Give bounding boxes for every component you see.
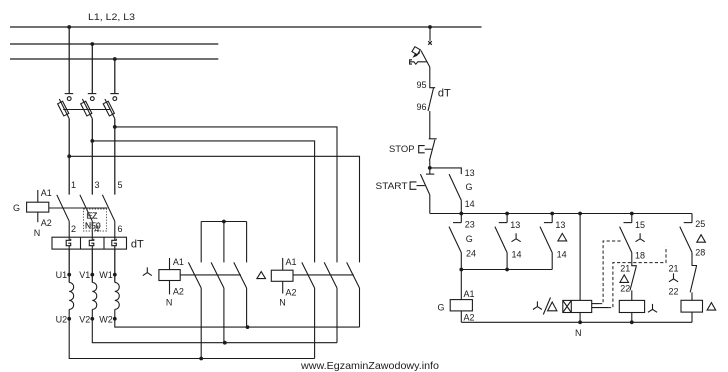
fuse-switch linkage xyxy=(63,109,110,111)
motor winding V xyxy=(92,282,97,309)
contactor G main contact 1-2 xyxy=(57,195,69,237)
svg-text:13: 13 xyxy=(465,168,475,178)
aux contact G 13-14 xyxy=(430,168,462,214)
contactor D contact 2 xyxy=(324,262,337,342)
svg-text:A2: A2 xyxy=(41,218,52,228)
node V1 xyxy=(90,273,94,277)
svg-text:A1: A1 xyxy=(173,257,184,267)
wire L3 rail xyxy=(10,58,218,60)
svg-text:14: 14 xyxy=(557,250,567,260)
wire V2 run xyxy=(92,309,337,342)
svg-text:28: 28 xyxy=(695,248,705,258)
svg-text:L1, L2, L3: L1, L2, L3 xyxy=(88,12,135,22)
contactor G main contact 3-4 xyxy=(80,195,92,237)
node below STOP xyxy=(428,166,432,170)
contactor G coil xyxy=(13,188,52,238)
svg-text:V2: V2 xyxy=(79,314,90,324)
timed contact 25-28 xyxy=(680,214,692,261)
svg-text:N: N xyxy=(166,298,173,308)
svg-text:18: 18 xyxy=(635,250,645,260)
svg-text:V1: V1 xyxy=(79,270,90,280)
wire aux bottom bus xyxy=(461,269,552,271)
node busA Y aux xyxy=(505,212,509,216)
svg-text:G: G xyxy=(13,203,20,213)
wire bridge stub 3 xyxy=(246,222,248,263)
svg-text:W1: W1 xyxy=(99,270,113,280)
svg-text:22: 22 xyxy=(668,287,678,297)
breaker Q1 xyxy=(410,41,432,82)
wire branch phase2 to delta left xyxy=(92,141,314,263)
wire phase drop 2 xyxy=(91,44,93,93)
wire N bus xyxy=(461,321,692,323)
svg-text:N: N xyxy=(279,298,286,308)
coil D control xyxy=(681,300,716,322)
svg-text:25: 25 xyxy=(695,219,705,229)
symbol delta D aux xyxy=(558,233,567,241)
node branch phase3 xyxy=(113,125,117,129)
node U1 xyxy=(67,273,71,277)
svg-text:13: 13 xyxy=(555,220,565,230)
node busA timer xyxy=(578,212,582,216)
wire L1 rail xyxy=(10,26,482,28)
svg-text:www.EgzaminZawodowy.info: www.EgzaminZawodowy.info xyxy=(300,360,439,372)
svg-text:3: 3 xyxy=(95,180,100,190)
node busA D aux xyxy=(550,212,554,216)
svg-text:A1: A1 xyxy=(464,289,475,299)
contactor D contact 1 xyxy=(302,262,315,358)
timer linkage to 15-18 xyxy=(592,303,599,305)
wire control bus A xyxy=(430,213,692,215)
svg-text:14: 14 xyxy=(465,199,475,209)
motor winding W xyxy=(115,282,120,309)
wire W2 run xyxy=(115,309,360,327)
svg-text:5: 5 xyxy=(118,180,123,190)
svg-text:A2: A2 xyxy=(173,286,184,296)
svg-text:N: N xyxy=(575,328,582,338)
node L1 tap control xyxy=(428,25,432,29)
wire phase drop 3 xyxy=(114,59,116,93)
wire phase drop 1 xyxy=(68,27,70,93)
svg-text:U2: U2 xyxy=(56,314,68,324)
fuse-switch pole 2 xyxy=(81,94,97,119)
node L2 tap xyxy=(90,42,94,46)
node Y mid on V2 run xyxy=(223,341,227,345)
wire bridge stub 2 xyxy=(223,222,225,263)
svg-text:EZ: EZ xyxy=(87,211,98,221)
coil G control xyxy=(438,270,475,323)
symbol delta 25 xyxy=(697,235,706,243)
contactor Y linkage xyxy=(180,274,241,276)
timer linkage to 25-28 xyxy=(592,307,608,309)
svg-text:G: G xyxy=(466,182,473,192)
node W1 xyxy=(113,273,117,277)
svg-text:START: START xyxy=(376,181,409,191)
motor winding U xyxy=(69,282,74,309)
svg-text:2: 2 xyxy=(71,224,76,234)
node Y right on W2 run xyxy=(246,325,250,329)
wire dT to W1 xyxy=(114,249,116,282)
coil Y control xyxy=(619,300,657,322)
contactor Y star bridge xyxy=(201,221,246,223)
svg-text:22: 22 xyxy=(620,284,630,294)
svg-text:N: N xyxy=(34,228,41,238)
fuse-switch pole 1 xyxy=(58,94,74,119)
svg-text:STOP: STOP xyxy=(389,144,415,154)
svg-text:A2: A2 xyxy=(464,312,475,322)
svg-text:A1: A1 xyxy=(41,188,52,198)
node L3 tap xyxy=(113,57,117,61)
aux contact Y 13-14 xyxy=(495,214,507,270)
svg-text:96: 96 xyxy=(416,102,426,112)
svg-text:G: G xyxy=(466,234,473,244)
node busA 15 xyxy=(630,212,634,216)
pushbutton STOP xyxy=(419,139,437,168)
label star/delta timer xyxy=(533,298,557,315)
svg-text:14: 14 xyxy=(512,250,522,260)
thermal contact dT 95-96 xyxy=(428,82,435,139)
svg-text:dT: dT xyxy=(438,87,451,99)
fuse-switch pole 3 xyxy=(103,94,119,119)
wire dT to V1 xyxy=(91,249,93,282)
wire U2 to delta right run xyxy=(69,309,314,358)
node branch phase2 xyxy=(90,139,94,143)
contactor Y contact 1 xyxy=(188,262,201,358)
svg-text:G: G xyxy=(438,303,445,313)
svg-text:23: 23 xyxy=(465,220,475,230)
symbol star interlock xyxy=(669,273,678,281)
svg-text:6: 6 xyxy=(118,224,123,234)
node branch phase1 xyxy=(67,154,71,158)
node N timer xyxy=(578,320,582,324)
wire L2 rail xyxy=(10,43,218,45)
heater element 2 xyxy=(89,237,94,249)
svg-text:U1: U1 xyxy=(56,270,68,280)
symbol star Y aux xyxy=(512,233,521,241)
contactor Y coil xyxy=(143,257,184,308)
svg-text:N50: N50 xyxy=(85,221,101,231)
node aux bus G xyxy=(459,268,463,272)
contactor Y contact 3 xyxy=(234,262,247,327)
wire below fuse 3 xyxy=(114,119,116,195)
svg-text:A2: A2 xyxy=(286,287,297,297)
svg-text:24: 24 xyxy=(466,249,476,259)
svg-text:13: 13 xyxy=(510,220,520,230)
wire dT to U1 xyxy=(68,249,70,282)
svg-text:21: 21 xyxy=(668,264,678,274)
svg-text:A1: A1 xyxy=(286,257,297,267)
wire below fuse 2 xyxy=(91,119,93,195)
svg-text:1: 1 xyxy=(71,180,76,190)
contactor D contact 3 xyxy=(347,262,360,327)
contactor G linkage xyxy=(49,207,108,209)
watermark stamp box xyxy=(84,209,107,231)
wire timer drop xyxy=(579,214,581,301)
svg-text:95: 95 xyxy=(416,80,426,90)
heater element 1 xyxy=(66,237,71,249)
timed contact 15-18 xyxy=(620,214,632,261)
aux contact D 13-14 xyxy=(540,214,552,270)
svg-text:W2: W2 xyxy=(99,314,113,324)
svg-text:15: 15 xyxy=(635,220,645,230)
wire control drop from L1 xyxy=(429,27,431,41)
node W2 xyxy=(113,317,117,321)
wire branch phase3 to delta middle xyxy=(115,127,337,263)
heater element 3 xyxy=(112,237,117,249)
wire below fuse 1 xyxy=(68,119,70,195)
node Y left on U2 run xyxy=(199,357,203,361)
interlock contact 21-22 star xyxy=(690,260,697,300)
pushbutton START xyxy=(410,168,434,214)
svg-text:21: 21 xyxy=(620,263,630,273)
node busA G aux xyxy=(459,212,463,216)
wire bridge stub 1 xyxy=(200,222,202,263)
symbol delta interlock xyxy=(620,275,629,283)
symbol star 15 xyxy=(636,233,645,241)
node U2 xyxy=(67,317,71,321)
node L1 tap phase drop xyxy=(67,25,71,29)
wire branch phase1 to delta right xyxy=(69,156,359,262)
timer coil Y/D xyxy=(563,300,592,322)
svg-text:dT: dT xyxy=(131,239,144,251)
contactor D linkage xyxy=(293,274,354,276)
node N Y coil xyxy=(630,320,634,324)
node aux bus Y xyxy=(505,268,509,272)
contactor G main contact 5-6 xyxy=(102,195,114,237)
aux contact G 23-24 xyxy=(449,214,461,270)
contactor D coil xyxy=(257,257,297,308)
node V2 xyxy=(90,317,94,321)
node star bridge xyxy=(222,220,226,224)
interlock contact 21-22 delta xyxy=(630,261,637,301)
contactor Y contact 2 xyxy=(211,262,224,342)
thermal overload relay dT box xyxy=(52,237,127,249)
